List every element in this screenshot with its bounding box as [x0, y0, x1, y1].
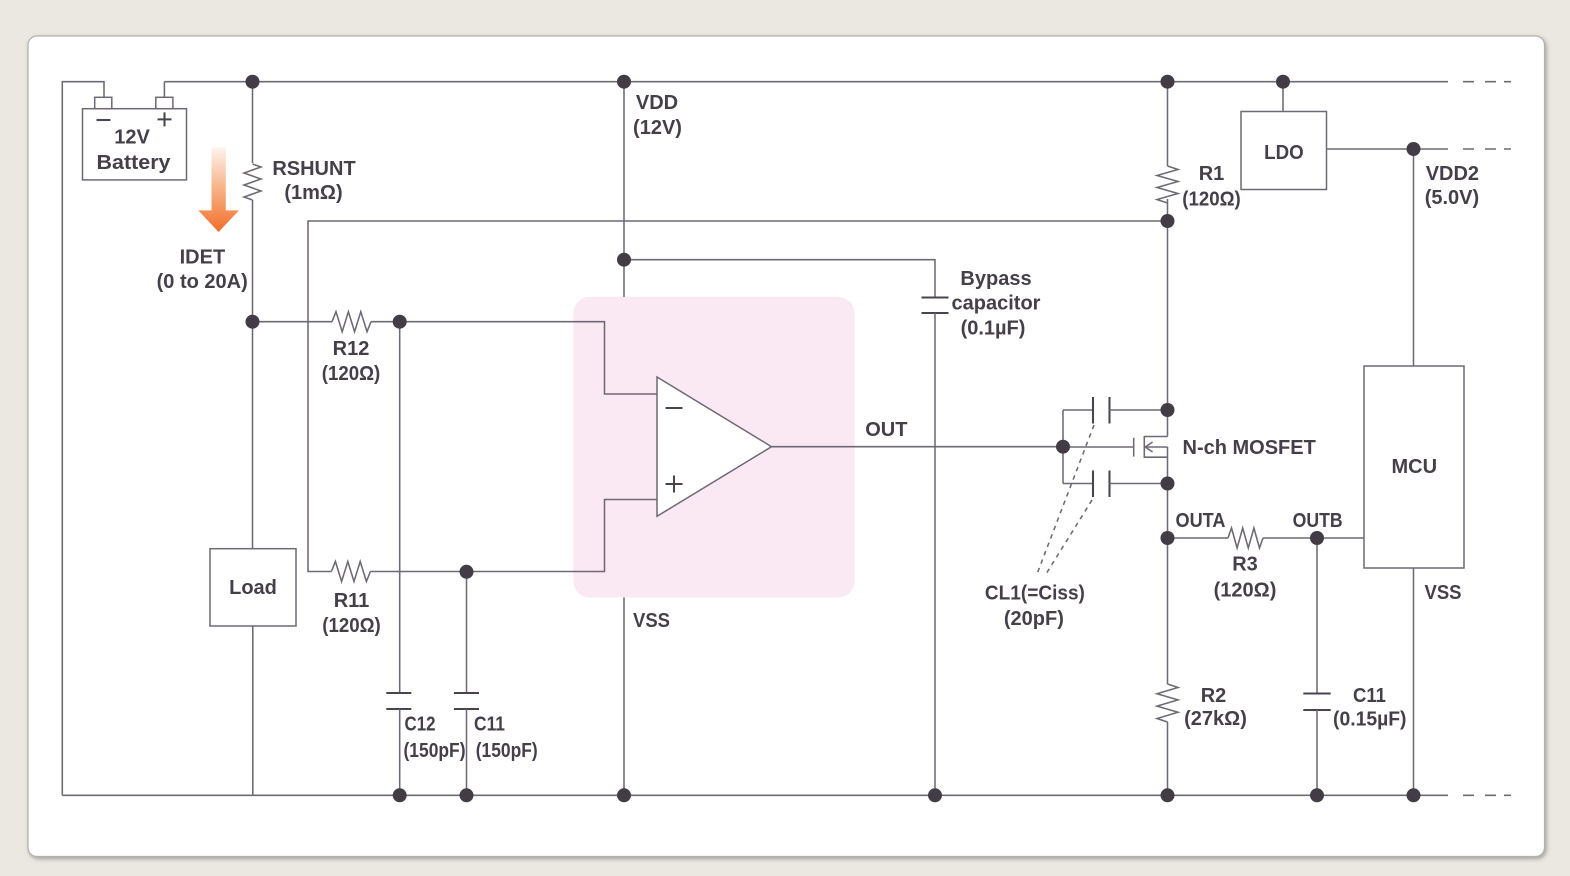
resistor R11 — [331, 562, 370, 582]
wire: C12 bottom lead — [399, 709, 401, 795]
node bottom C11b — [1310, 788, 1324, 802]
battery 12V — [83, 97, 187, 180]
svg-text:C11: C11 — [1353, 685, 1386, 707]
wire: battery minus to left rail — [62, 82, 104, 796]
capacitor C11 right — [1303, 694, 1330, 711]
resistor R12 — [332, 312, 371, 332]
battery plus symbol — [158, 112, 172, 126]
svg-text:(120Ω): (120Ω) — [1214, 580, 1277, 602]
resistor R2 — [1157, 684, 1178, 722]
node R12 out — [393, 315, 407, 329]
svg-text:Load: Load — [229, 577, 277, 599]
svg-text:VDD2: VDD2 — [1426, 163, 1479, 185]
op-amp U1 triangle — [657, 377, 772, 516]
wire: battery plus stub — [163, 82, 165, 98]
node bottom MCU — [1407, 788, 1421, 802]
wire: LDO top lead — [1282, 82, 1284, 111]
R11 label — [322, 590, 381, 637]
wire: bypass capacitor top lead — [624, 260, 935, 298]
node bypass tap — [617, 253, 631, 267]
svg-text:(1mΩ): (1mΩ) — [284, 182, 342, 204]
svg-text:R3: R3 — [1232, 554, 1258, 576]
bypass capacitor label — [952, 268, 1041, 340]
node battery top — [246, 75, 260, 89]
wire: CL1 upper left lead — [1063, 409, 1093, 411]
RSHUNT label — [272, 158, 355, 204]
node VDD top — [617, 75, 631, 89]
svg-text:N-ch MOSFET: N-ch MOSFET — [1183, 437, 1316, 459]
svg-text:R12: R12 — [333, 338, 370, 360]
CL1 label — [985, 583, 1085, 631]
node: gate column — [1062, 410, 1064, 484]
wire: right rail bottom lead — [1167, 722, 1169, 795]
IDET arrow — [198, 148, 239, 233]
CL1 pointer dashed lines — [1037, 425, 1094, 574]
op-amp minus symbol — [666, 407, 683, 409]
wire: OUTA to R3 — [1168, 537, 1229, 539]
wire: OUT from op-amp to gate node — [772, 446, 1064, 448]
node IDET bottom — [246, 315, 260, 329]
svg-text:(20pF): (20pF) — [1004, 608, 1064, 630]
R1 label — [1182, 163, 1241, 211]
LDO box — [1241, 112, 1327, 190]
R2 label — [1184, 685, 1247, 730]
svg-text:RSHUNT: RSHUNT — [272, 158, 355, 180]
svg-text:(27kΩ): (27kΩ) — [1184, 708, 1247, 730]
wire: RSHUNT top lead — [252, 82, 254, 163]
wire: R11 to op-amp non-inverting input — [370, 500, 657, 572]
wire: C11b bottom lead — [1316, 710, 1318, 795]
R3 label — [1214, 554, 1277, 602]
wire: CL1 upper right lead — [1110, 409, 1168, 411]
svg-text:(0 to 20A): (0 to 20A) — [157, 271, 248, 293]
svg-text:(150pF): (150pF) — [404, 740, 466, 762]
wire: CL1 lower left lead — [1063, 483, 1093, 485]
C11a label — [474, 714, 538, 763]
svg-text:(0.1µF): (0.1µF) — [961, 318, 1026, 340]
wire: gate lead — [1063, 446, 1134, 448]
node OUTA — [1161, 531, 1175, 545]
IDET label — [157, 247, 248, 294]
wire: top VDD rail — [164, 81, 1448, 83]
node drain — [1161, 403, 1175, 417]
svg-text:VDD: VDD — [636, 92, 678, 114]
node OUTB — [1310, 531, 1324, 545]
capacitor C12 — [386, 693, 411, 709]
wire: C11b top lead — [1316, 538, 1318, 694]
VDD2 label — [1425, 163, 1479, 209]
C11b label — [1333, 685, 1407, 731]
wire: right rail top lead — [1167, 82, 1169, 166]
svg-text:OUTA: OUTA — [1176, 510, 1226, 532]
svg-text:Bypass: Bypass — [960, 268, 1031, 290]
node bottom bypass — [928, 788, 942, 802]
wire: VDD branch to op-amp — [623, 82, 625, 297]
capacitor CL1 lower — [1093, 471, 1110, 498]
wire: feedback from R1 bottom node — [308, 221, 1168, 572]
wire: MCU VSS lead — [1413, 568, 1415, 795]
wire: bypass capacitor bottom lead — [934, 313, 936, 795]
svg-text:R2: R2 — [1201, 685, 1227, 707]
node LDO top — [1276, 75, 1290, 89]
node R1 bottom — [1161, 214, 1175, 228]
svg-text:VSS: VSS — [1425, 582, 1462, 604]
svg-text:CL1(=Ciss): CL1(=Ciss) — [985, 583, 1085, 605]
op-amp plus symbol — [666, 476, 683, 493]
wire: VDD2 to MCU — [1413, 149, 1415, 366]
svg-text:(12V): (12V) — [633, 117, 682, 139]
svg-text:(120Ω): (120Ω) — [322, 363, 381, 385]
svg-text:OUTB: OUTB — [1293, 510, 1343, 532]
wire: C11a top lead — [466, 572, 468, 694]
wire: RSHUNT bottom lead — [252, 200, 254, 322]
node bottom R2 — [1161, 788, 1175, 802]
wire: bottom rail dashed continuation — [1463, 794, 1511, 796]
svg-text:Battery: Battery — [97, 152, 172, 174]
node R1 top — [1161, 75, 1175, 89]
capacitor C11 left — [454, 693, 479, 709]
wire: bottom VSS rail — [62, 794, 1448, 796]
capacitor CL1 upper — [1093, 397, 1110, 424]
svg-text:(5.0V): (5.0V) — [1425, 187, 1479, 209]
op-amp highlight box — [574, 297, 855, 598]
MCU box — [1364, 366, 1464, 568]
svg-text:12V: 12V — [114, 127, 150, 149]
wire: top rail dashed continuation — [1463, 81, 1511, 83]
resistor RSHUNT — [244, 164, 261, 200]
node bottom VSS opamp — [617, 788, 631, 802]
svg-text:VSS: VSS — [633, 610, 670, 632]
wire: right rail middle — [1167, 199, 1169, 684]
transistor Q1 N-ch MOSFET — [1134, 436, 1168, 458]
svg-text:C12: C12 — [405, 714, 436, 736]
svg-text:MCU: MCU — [1392, 456, 1438, 478]
svg-text:OUT: OUT — [865, 419, 907, 441]
battery minus symbol — [97, 119, 111, 121]
bypass capacitor — [922, 298, 949, 314]
load box — [210, 549, 296, 626]
svg-text:R11: R11 — [334, 590, 370, 612]
svg-text:(120Ω): (120Ω) — [322, 615, 381, 637]
wire: C12 top lead — [399, 322, 401, 693]
wire: R3 to OUTB to MCU — [1263, 537, 1364, 539]
resistor R3 — [1228, 528, 1263, 548]
node VDD2 — [1407, 142, 1421, 156]
svg-text:(150pF): (150pF) — [476, 740, 538, 762]
wire: VDD2 dashed continuation — [1463, 148, 1511, 150]
R12 label — [322, 338, 381, 385]
wire: CL1 lower right lead — [1110, 483, 1168, 485]
svg-text:LDO: LDO — [1264, 142, 1304, 164]
wire: C11a bottom lead — [466, 709, 468, 795]
svg-text:C11: C11 — [474, 714, 505, 736]
wire: LDO output to VDD2 node — [1327, 148, 1449, 150]
node R11 out — [460, 565, 474, 579]
svg-text:(0.15µF): (0.15µF) — [1333, 709, 1407, 731]
wire: node IDET to R12 — [253, 321, 333, 323]
VDD label — [633, 92, 682, 139]
wire: op-amp VSS lead — [623, 598, 625, 796]
svg-text:R1: R1 — [1199, 163, 1225, 185]
svg-text:capacitor: capacitor — [952, 293, 1041, 315]
C12 label — [404, 714, 466, 763]
node gate — [1056, 440, 1070, 454]
wire: load branch — [252, 322, 254, 796]
node source — [1161, 477, 1175, 491]
resistor R1 — [1157, 166, 1178, 203]
svg-text:(120Ω): (120Ω) — [1182, 189, 1241, 211]
wire: R12 to op-amp inverting input — [371, 322, 657, 394]
svg-text:IDET: IDET — [180, 247, 226, 269]
node bottom C12 — [393, 788, 407, 802]
battery label — [97, 127, 172, 175]
node bottom C11a — [460, 788, 474, 802]
